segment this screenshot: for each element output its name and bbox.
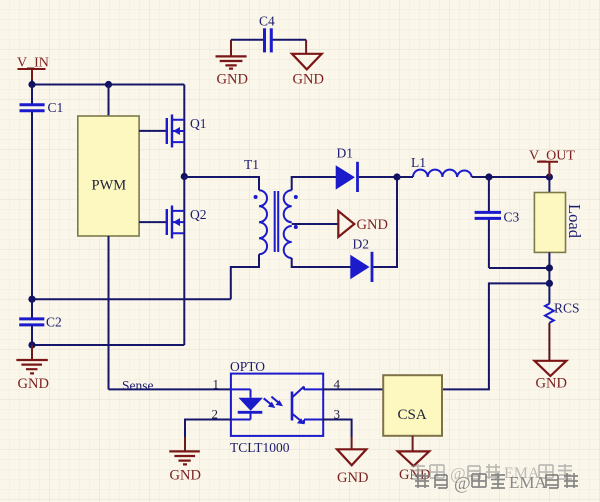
wire junction to CSA right pin (442, 283, 549, 389)
resistor RCS (545, 283, 580, 360)
T1 secondary winding top (284, 190, 292, 222)
svg-text:Q2: Q2 (190, 207, 207, 222)
wire D1 cathode to node (359, 176, 397, 178)
svg-text:1: 1 (213, 377, 220, 392)
wire rail C2 top (32, 298, 231, 300)
ground GND triangle right of C4 (292, 40, 324, 88)
svg-text:GND: GND (293, 72, 324, 88)
svg-text:GND: GND (536, 376, 567, 392)
svg-text:C2: C2 (46, 315, 62, 330)
svg-text:TCLT1000: TCLT1000 (230, 440, 290, 455)
watermark main copy (415, 473, 578, 493)
capacitor C3 (475, 177, 520, 268)
svg-text:L1: L1 (411, 155, 426, 170)
wire PWM to Q2 gate (139, 221, 166, 223)
transformer T1 (244, 157, 298, 258)
wire L1 to V_OUT (472, 176, 550, 178)
svg-text:GND: GND (18, 376, 49, 392)
svg-text:GND: GND (337, 470, 368, 486)
wire midpoint to transformer primary top (184, 177, 259, 190)
wire PWM top pin (108, 85, 110, 117)
LED emission arrows (264, 397, 283, 408)
wire primary bottom lead (231, 254, 259, 299)
wire OPTO pin4 to CSA (322, 388, 383, 390)
T1 polarity dot secondary top (294, 195, 298, 199)
node V_IN junction (28, 81, 35, 88)
block PWM (78, 116, 139, 236)
wire top rail V_IN to Q1 drain corner (32, 80, 184, 85)
wire Q2 vertical through source down to bottom rail (183, 177, 185, 346)
optocoupler U-OPTO box (230, 359, 323, 455)
transistor Q1 (167, 115, 207, 148)
wire CSA bottom to ground (412, 436, 414, 451)
svg-text:GND: GND (170, 468, 201, 484)
block CSA (383, 375, 442, 436)
transistor Q2 (167, 206, 207, 239)
diode D1 (336, 146, 357, 193)
T1 polarity dot primary (254, 195, 258, 199)
wire rail C2 bottom / Q2 source return (32, 344, 184, 346)
wire PWM bottom pin down (108, 236, 110, 389)
svg-text:PWM: PWM (92, 178, 127, 194)
node RCS top junction (546, 280, 553, 287)
diode D2 (351, 237, 372, 283)
T1 core (275, 191, 279, 252)
wire OPTO pin2 to ground (185, 420, 231, 438)
wire secondary center tap (292, 223, 339, 225)
ground GND triangle below CSA (398, 451, 431, 483)
svg-text:GND: GND (357, 217, 388, 233)
wire PWM to Q1 gate (139, 130, 166, 132)
node Load bottom junction (546, 264, 553, 271)
node rectifier output junction (393, 173, 400, 180)
LED inside optocoupler (231, 389, 263, 419)
svg-text:Sense: Sense (122, 378, 154, 393)
wire secondary top to D1 (292, 177, 337, 190)
T1 polarity dot secondary bottom (294, 225, 298, 229)
svg-text:D2: D2 (353, 237, 370, 252)
capacitor C1 (20, 85, 64, 116)
svg-text:OPTO: OPTO (230, 359, 265, 374)
watermark ghost copy (411, 464, 572, 483)
ground GND triangle at OPTO pin3 (337, 449, 368, 486)
resistor Load (534, 177, 584, 283)
capacitor C4 (231, 14, 306, 53)
power port GND right-pointing at center tap (338, 211, 388, 237)
capacitor C2 (19, 299, 62, 345)
ground GND earth left of C4 (216, 40, 248, 88)
svg-text:CSA: CSA (398, 407, 427, 423)
power port V_IN (17, 56, 49, 81)
inductor L1 (397, 155, 472, 177)
node C2 top junction (28, 296, 35, 303)
ground GND triangle below RCS (535, 361, 567, 392)
svg-text:EMA: EMA (509, 473, 548, 492)
wire secondary bottom to D2 (292, 258, 351, 267)
svg-text:C3: C3 (504, 210, 520, 225)
ground GND earth below C2 (16, 345, 49, 392)
svg-text:@: @ (454, 473, 471, 493)
wire C3 bottom to Load bottom (489, 267, 550, 269)
svg-text:GND: GND (217, 72, 248, 88)
svg-text:C4: C4 (259, 14, 275, 29)
wire D2 cathode up to D1 node (373, 177, 397, 267)
T1 primary winding (259, 190, 267, 254)
node C2 bottom junction (28, 341, 35, 348)
T1 secondary winding bottom (284, 226, 292, 258)
node PWM top junction (105, 81, 112, 88)
wire Q1 drain vertical (183, 85, 185, 177)
svg-text:Q1: Q1 (190, 116, 207, 131)
wire Sense net to OPTO pin 1 (109, 388, 231, 390)
node Q1/Q2 midpoint junction (181, 173, 188, 180)
phototransistor inside optocoupler (292, 387, 322, 425)
svg-text:T1: T1 (244, 157, 259, 172)
wire OPTO pin3 to ground (322, 420, 351, 438)
svg-text:Load: Load (565, 204, 584, 239)
node C3 top junction (485, 173, 492, 180)
svg-text:RCS: RCS (554, 301, 580, 316)
power port V_OUT (529, 149, 575, 178)
wire C1 bottom down to C2 top (31, 112, 33, 299)
svg-text:D1: D1 (337, 146, 354, 161)
ground GND earth at OPTO pin2 (169, 451, 201, 483)
svg-text:C1: C1 (48, 100, 64, 115)
node V_OUT junction (546, 173, 553, 180)
